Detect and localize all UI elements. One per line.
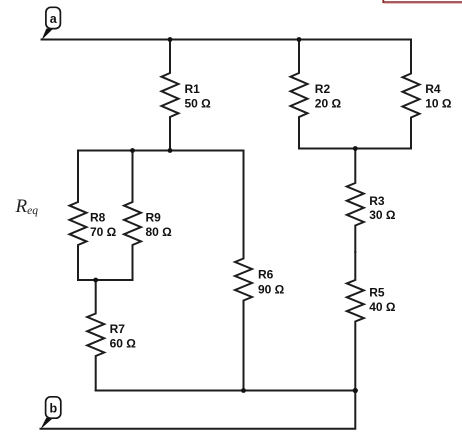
svg-text:R7: R7: [110, 322, 126, 336]
svg-text:R9: R9: [146, 211, 162, 225]
svg-text:50 Ω: 50 Ω: [185, 97, 212, 111]
svg-text:40 Ω: 40 Ω: [369, 300, 396, 314]
svg-text:R6: R6: [258, 267, 274, 281]
svg-text:Req: Req: [15, 196, 39, 217]
svg-text:10 Ω: 10 Ω: [425, 97, 452, 111]
svg-text:R3: R3: [369, 194, 385, 208]
svg-text:90 Ω: 90 Ω: [258, 282, 285, 296]
svg-text:60 Ω: 60 Ω: [110, 336, 137, 350]
svg-text:R1: R1: [185, 82, 201, 96]
svg-text:R8: R8: [90, 211, 106, 225]
svg-text:80 Ω: 80 Ω: [146, 225, 173, 239]
svg-text:R4: R4: [425, 82, 441, 96]
svg-text:a: a: [50, 12, 58, 26]
svg-text:20 Ω: 20 Ω: [315, 97, 342, 111]
svg-text:30 Ω: 30 Ω: [369, 208, 396, 222]
svg-text:b: b: [49, 402, 57, 416]
svg-text:R5: R5: [369, 286, 385, 300]
svg-text:70 Ω: 70 Ω: [90, 225, 117, 239]
svg-text:R2: R2: [315, 82, 331, 96]
